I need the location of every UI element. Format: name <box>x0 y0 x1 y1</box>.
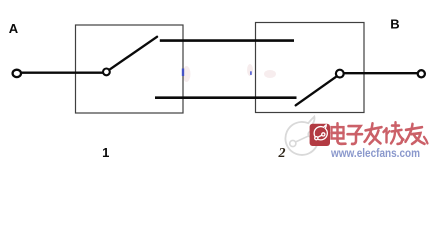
wire A <box>20 71 104 73</box>
wire B <box>344 72 418 74</box>
watermark red tile logo <box>310 124 330 146</box>
top wire (node between switches) <box>160 39 294 42</box>
switch S1 common pivot <box>103 69 110 76</box>
svg-text:1: 1 <box>102 145 109 160</box>
switch S1 lever <box>109 37 157 70</box>
box 1 (switch 1 enclosure) <box>76 25 184 113</box>
watermark chinese text zi <box>348 126 363 144</box>
svg-text:B: B <box>390 16 399 31</box>
watermark chinese text fa <box>365 123 382 144</box>
terminal A <box>13 70 21 77</box>
bottom wire (node between switches) <box>155 96 297 99</box>
watermark node circles and link <box>290 131 315 146</box>
terminal B <box>418 70 425 77</box>
watermark big circle logo <box>285 117 318 155</box>
blue artifact near box 2 left edge <box>250 71 252 75</box>
box 2 (switch 2 enclosure) <box>256 23 365 113</box>
watermark chinese text dian <box>332 123 346 144</box>
svg-text:www.elecfans.com: www.elecfans.com <box>330 148 420 160</box>
switch S2 lever <box>296 76 337 105</box>
svg-text:2: 2 <box>278 146 286 161</box>
watermark chinese text shao <box>384 122 404 144</box>
svg-text:A: A <box>9 21 19 36</box>
watermark chinese text you <box>406 124 428 144</box>
blue artifact on box 1 right edge <box>182 69 184 77</box>
switch S2 common pivot <box>336 70 344 78</box>
faint jpeg ghost smudges <box>183 64 277 82</box>
